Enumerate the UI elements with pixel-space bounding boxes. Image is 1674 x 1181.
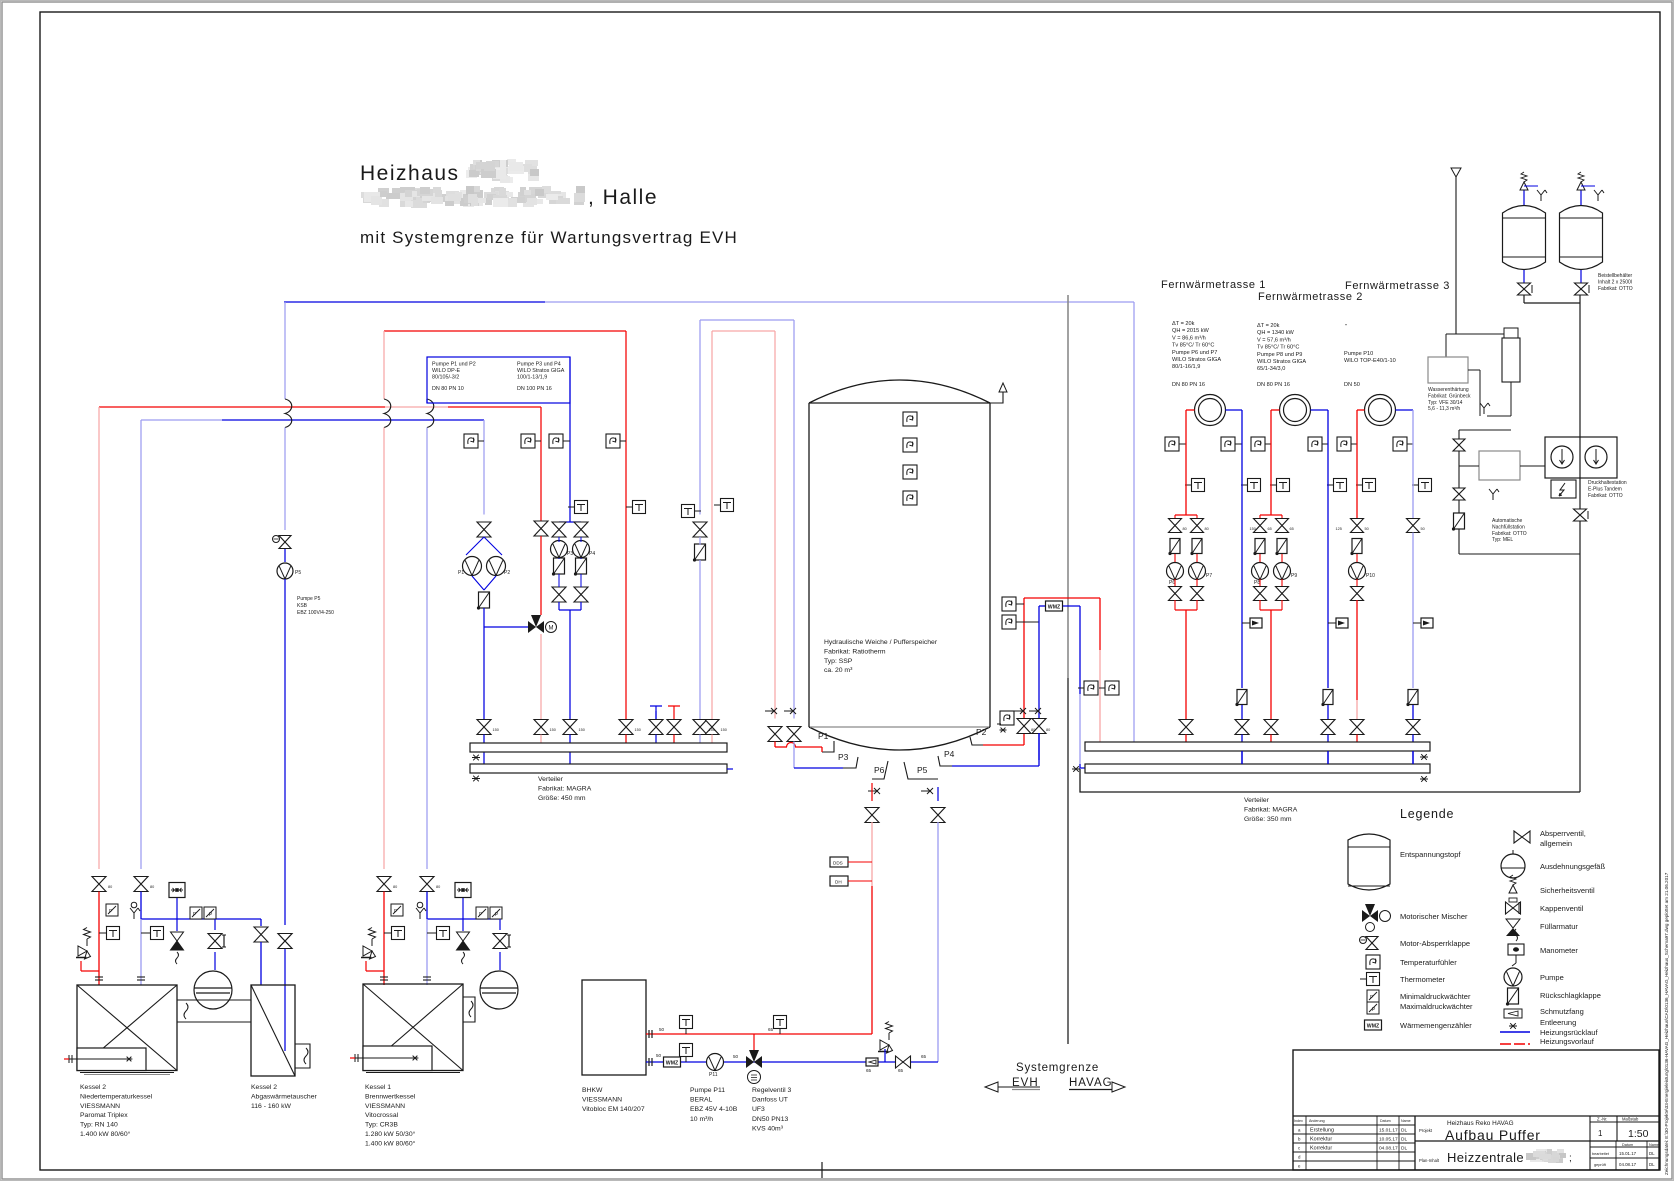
svg-text:mit Systemgrenze für Wartungsv: mit Systemgrenze für Wartungsvertrag EVH xyxy=(360,228,738,247)
svg-text:DN 50: DN 50 xyxy=(1344,382,1360,388)
svg-text:M: M xyxy=(549,625,554,631)
svg-text:Vitobloc EM 140/207: Vitobloc EM 140/207 xyxy=(582,1106,645,1113)
svg-text:Erstellung: Erstellung xyxy=(1310,1128,1334,1134)
svg-text:80/105/-3/2: 80/105/-3/2 xyxy=(432,375,459,381)
svg-text:Minimaldruckwächter: Minimaldruckwächter xyxy=(1400,992,1471,1001)
svg-text:ΔT = 20k: ΔT = 20k xyxy=(1257,323,1280,329)
svg-text:KSB: KSB xyxy=(297,603,308,609)
svg-text:Pumpe P11: Pumpe P11 xyxy=(690,1087,725,1094)
svg-text:P5: P5 xyxy=(295,570,301,576)
svg-text:Kessel 1: Kessel 1 xyxy=(365,1084,391,1091)
svg-text:15.01.17: 15.01.17 xyxy=(1619,1151,1637,1156)
svg-text:EBZ 100V/4-250: EBZ 100V/4-250 xyxy=(297,610,334,616)
svg-text:Thermometer: Thermometer xyxy=(1400,975,1446,984)
svg-text:P10: P10 xyxy=(1366,573,1375,579)
svg-text:80: 80 xyxy=(1031,728,1035,732)
svg-text:Pumpe P3 und P4: Pumpe P3 und P4 xyxy=(517,362,561,368)
svg-text:Korrektur: Korrektur xyxy=(1310,1146,1332,1152)
svg-text:Maximaldruckwächter: Maximaldruckwächter xyxy=(1400,1002,1473,1011)
svg-text:Tv 85°C/ Tr 60°C: Tv 85°C/ Tr 60°C xyxy=(1257,345,1299,351)
svg-text:Sicherheitsventil: Sicherheitsventil xyxy=(1540,886,1595,895)
svg-text:04.08.17: 04.08.17 xyxy=(1619,1162,1637,1167)
svg-text:Datum: Datum xyxy=(1622,1143,1633,1147)
svg-text:Manometer: Manometer xyxy=(1540,946,1578,955)
svg-text:ca. 20 m³: ca. 20 m³ xyxy=(824,667,853,674)
svg-text:80/1-16/1,9: 80/1-16/1,9 xyxy=(1172,364,1200,370)
svg-text:WMZ: WMZ xyxy=(1048,605,1061,611)
svg-text:UF3: UF3 xyxy=(752,1106,765,1113)
svg-text:WMZ: WMZ xyxy=(1367,1024,1380,1030)
svg-text:Kappenventil: Kappenventil xyxy=(1540,904,1584,913)
svg-text:DL: DL xyxy=(1401,1146,1407,1152)
svg-text:P11: P11 xyxy=(709,1072,718,1078)
svg-text:DN 80 PN 16: DN 80 PN 16 xyxy=(1257,382,1290,388)
svg-text:Typ: VFE 30/14: Typ: VFE 30/14 xyxy=(1428,400,1463,406)
svg-text:V = 86,6 m³/h: V = 86,6 m³/h xyxy=(1172,335,1206,341)
svg-text:116 - 160 kW: 116 - 160 kW xyxy=(251,1103,292,1110)
svg-text:Fabrikat: OTTO: Fabrikat: OTTO xyxy=(1598,286,1633,292)
svg-text:Name: Name xyxy=(1649,1143,1659,1147)
svg-text:15.01.17: 15.01.17 xyxy=(1379,1128,1398,1134)
svg-text:Rückschlagklappe: Rückschlagklappe xyxy=(1540,991,1601,1000)
svg-text:Plan-Inhalt: Plan-Inhalt xyxy=(1419,1158,1440,1163)
svg-text:Pumpe P5: Pumpe P5 xyxy=(297,596,321,602)
svg-text:P8: P8 xyxy=(1254,580,1260,586)
svg-text:Änderung: Änderung xyxy=(1309,1119,1325,1123)
svg-text:DN 100 PN 16: DN 100 PN 16 xyxy=(517,386,552,392)
svg-text:150: 150 xyxy=(709,728,715,732)
svg-text:50: 50 xyxy=(659,1027,665,1032)
svg-text:Ausdehnungsgefäß: Ausdehnungsgefäß xyxy=(1540,862,1605,871)
svg-text:65: 65 xyxy=(1268,527,1272,531)
svg-text:DL: DL xyxy=(1401,1128,1407,1134)
svg-text:1.400 kW 80/60°: 1.400 kW 80/60° xyxy=(365,1139,416,1147)
svg-text:Inhalt 2 x 2500l: Inhalt 2 x 2500l xyxy=(1598,279,1632,285)
svg-text:Absperrventil,: Absperrventil, xyxy=(1540,829,1586,838)
svg-text:100/1-13/1,9: 100/1-13/1,9 xyxy=(517,375,547,381)
svg-text:P5: P5 xyxy=(917,765,928,775)
svg-text:Pumpe: Pumpe xyxy=(1540,973,1564,982)
svg-text:allgemein: allgemein xyxy=(1540,839,1572,848)
svg-text:1:50: 1:50 xyxy=(1628,1128,1649,1140)
svg-text:80: 80 xyxy=(393,885,397,889)
svg-text:Fernwärmetrasse 3: Fernwärmetrasse 3 xyxy=(1345,280,1450,292)
svg-text:WILO Stratos GIGA: WILO Stratos GIGA xyxy=(517,368,565,374)
svg-text:10.05.17: 10.05.17 xyxy=(1379,1137,1398,1143)
svg-text:80: 80 xyxy=(1183,527,1187,531)
svg-text:Verteiler: Verteiler xyxy=(538,776,564,783)
svg-text:Regelventil 3: Regelventil 3 xyxy=(752,1087,792,1094)
svg-text:Z.-Nr.: Z.-Nr. xyxy=(1597,1117,1607,1122)
svg-text:Systemgrenze: Systemgrenze xyxy=(1016,1062,1099,1074)
svg-text:Schmutzfang: Schmutzfang xyxy=(1540,1007,1584,1016)
svg-text:WILO DP-E: WILO DP-E xyxy=(432,368,461,374)
svg-text:5,6 - 11,3 m³/h: 5,6 - 11,3 m³/h xyxy=(1428,406,1460,412)
svg-text:Typ: CR3B: Typ: CR3B xyxy=(365,1122,398,1129)
svg-text:P4: P4 xyxy=(589,551,595,557)
svg-text:65: 65 xyxy=(898,1068,904,1073)
svg-text:Kessel 2: Kessel 2 xyxy=(80,1084,106,1091)
svg-text:Entspannungstopf: Entspannungstopf xyxy=(1400,850,1461,859)
svg-text:HAVAG: HAVAG xyxy=(1069,1077,1113,1089)
svg-text:Temperaturfühler: Temperaturfühler xyxy=(1400,958,1457,967)
svg-text:WILO Stratos GIGA: WILO Stratos GIGA xyxy=(1257,359,1306,365)
svg-text:Heizzentrale: Heizzentrale xyxy=(1447,1150,1524,1165)
svg-text:Pumpe P6 und P7: Pumpe P6 und P7 xyxy=(1172,350,1217,356)
svg-text:Typ: SSP: Typ: SSP xyxy=(824,658,853,665)
svg-text:P3: P3 xyxy=(838,752,849,762)
svg-text:Legende: Legende xyxy=(1400,807,1454,821)
svg-text:Nachfüllstation: Nachfüllstation xyxy=(1492,524,1525,530)
svg-text:DN50 PN13: DN50 PN13 xyxy=(752,1116,788,1123)
svg-text:50: 50 xyxy=(656,1053,662,1058)
svg-text:;: ; xyxy=(1569,1153,1572,1164)
svg-text:Hydraulische Weiche / Puffersp: Hydraulische Weiche / Pufferspeicher xyxy=(824,639,938,646)
svg-text:Vitocrossal: Vitocrossal xyxy=(365,1112,399,1119)
svg-text:VIESSMANN: VIESSMANN xyxy=(80,1103,120,1110)
svg-text:P4: P4 xyxy=(944,749,955,759)
svg-text:Name: Name xyxy=(1401,1119,1411,1123)
svg-text:Pumpe P10: Pumpe P10 xyxy=(1344,351,1373,357)
svg-text:Heizungsrücklauf: Heizungsrücklauf xyxy=(1540,1028,1598,1037)
svg-text:80: 80 xyxy=(108,885,112,889)
svg-text:DN 80 PN 16: DN 80 PN 16 xyxy=(1172,382,1205,388)
svg-text:DL: DL xyxy=(1649,1151,1655,1156)
svg-text:Größe: 450 mm: Größe: 450 mm xyxy=(538,795,586,802)
svg-text:P1: P1 xyxy=(818,731,829,741)
svg-text:65/1-34/3,0: 65/1-34/3,0 xyxy=(1257,366,1285,372)
svg-text:150: 150 xyxy=(493,728,499,732)
svg-text:150: 150 xyxy=(1250,527,1256,531)
svg-text:Heizungsvorlauf: Heizungsvorlauf xyxy=(1540,1037,1595,1046)
svg-text:1.280 kW 50/30°: 1.280 kW 50/30° xyxy=(365,1130,416,1138)
svg-text:P6: P6 xyxy=(1169,580,1175,586)
svg-text:Größe: 350 mm: Größe: 350 mm xyxy=(1244,816,1292,823)
svg-text:P2: P2 xyxy=(504,570,510,576)
svg-text:DN 80 PN 10: DN 80 PN 10 xyxy=(432,386,464,392)
svg-text:E-Plus Tandem: E-Plus Tandem xyxy=(1588,486,1622,492)
svg-text:P2: P2 xyxy=(976,727,987,737)
svg-text:": " xyxy=(1345,324,1347,330)
svg-text:Fabrikat: Ratiotherm: Fabrikat: Ratiotherm xyxy=(824,648,886,655)
svg-text:65: 65 xyxy=(1290,527,1294,531)
svg-text:Korrektur: Korrektur xyxy=(1310,1137,1332,1143)
svg-text:QH = 2015 kW: QH = 2015 kW xyxy=(1172,328,1210,334)
svg-text:50: 50 xyxy=(1365,527,1369,531)
svg-text:ΔT = 20k: ΔT = 20k xyxy=(1172,321,1195,327)
svg-text:150: 150 xyxy=(635,728,641,732)
svg-text:VIESSMANN: VIESSMANN xyxy=(582,1097,622,1104)
svg-text:P7: P7 xyxy=(1206,573,1212,579)
svg-text:Zeichnungsdatei: E:\30-Projekt: Zeichnungsdatei: E:\30-Projekte\33-Energ… xyxy=(1664,872,1669,1175)
svg-text:65: 65 xyxy=(866,1068,872,1073)
svg-text:VIESSMANN: VIESSMANN xyxy=(365,1103,405,1110)
svg-text:Fabrikat: MAGRA: Fabrikat: MAGRA xyxy=(538,786,592,793)
svg-text:Danfoss UT: Danfoss UT xyxy=(752,1097,788,1104)
svg-text:bearbeitet: bearbeitet xyxy=(1592,1152,1610,1156)
svg-text:DL: DL xyxy=(1401,1137,1407,1143)
svg-text:Druckhaltestation: Druckhaltestation xyxy=(1588,480,1627,486)
svg-text:Wasserenthärtung: Wasserenthärtung xyxy=(1428,387,1469,393)
svg-text:1.400 kW 80/60°: 1.400 kW 80/60° xyxy=(80,1130,131,1138)
svg-text:Heizhaus: Heizhaus xyxy=(360,162,460,185)
svg-text:80: 80 xyxy=(150,885,154,889)
svg-text:Pumpe P8 und P9: Pumpe P8 und P9 xyxy=(1257,352,1302,358)
svg-text:1: 1 xyxy=(1598,1129,1603,1138)
svg-text:KVS 40m³: KVS 40m³ xyxy=(752,1125,784,1132)
svg-text:Index: Index xyxy=(1294,1119,1303,1123)
svg-text:150: 150 xyxy=(550,728,556,732)
svg-text:Wärmemengenzähler: Wärmemengenzähler xyxy=(1400,1021,1472,1030)
svg-text:80: 80 xyxy=(1046,728,1050,732)
svg-text:Typ: RN 140: Typ: RN 140 xyxy=(80,1122,118,1129)
svg-text:P9: P9 xyxy=(1291,573,1297,579)
svg-text:Datum: Datum xyxy=(1380,1119,1391,1123)
svg-text:Füllarmatur: Füllarmatur xyxy=(1540,922,1578,931)
svg-text:P6: P6 xyxy=(874,765,885,775)
svg-text:Entleerung: Entleerung xyxy=(1540,1018,1576,1027)
svg-text:10 m³/h: 10 m³/h xyxy=(690,1116,713,1123)
svg-text:Kessel 2: Kessel 2 xyxy=(251,1084,277,1091)
svg-text:125: 125 xyxy=(1336,527,1342,531)
svg-text:50: 50 xyxy=(733,1054,739,1059)
svg-text:geprüft: geprüft xyxy=(1594,1163,1607,1167)
svg-text:Motor-Absperrklappe: Motor-Absperrklappe xyxy=(1400,939,1470,948)
svg-text:WILO TOP-E40/1-10: WILO TOP-E40/1-10 xyxy=(1344,358,1396,364)
svg-text:Fabrikat: OTTO: Fabrikat: OTTO xyxy=(1492,531,1527,537)
svg-text:DH: DH xyxy=(835,880,842,885)
svg-text:BERAL: BERAL xyxy=(690,1097,713,1104)
svg-text:Tv 85°C/ Tr 60°C: Tv 85°C/ Tr 60°C xyxy=(1172,343,1214,349)
svg-text:V = 57,6 m³/h: V = 57,6 m³/h xyxy=(1257,337,1291,343)
svg-text:Fernwärmetrasse 1: Fernwärmetrasse 1 xyxy=(1161,279,1266,291)
svg-text:150: 150 xyxy=(579,728,585,732)
svg-text:DDS: DDS xyxy=(833,861,843,866)
svg-text:Aufbau Puffer: Aufbau Puffer xyxy=(1445,1127,1541,1143)
svg-text:Fernwärmetrasse 2: Fernwärmetrasse 2 xyxy=(1258,291,1363,303)
svg-text:Beistellbehälter: Beistellbehälter xyxy=(1598,273,1633,279)
svg-text:Paromat Triplex: Paromat Triplex xyxy=(80,1112,128,1119)
svg-text:DL: DL xyxy=(1649,1162,1655,1167)
svg-text:Typ: MEL: Typ: MEL xyxy=(1492,537,1513,543)
svg-text:150: 150 xyxy=(721,728,727,732)
svg-text:Motorischer Mischer: Motorischer Mischer xyxy=(1400,912,1468,921)
svg-text:50: 50 xyxy=(1421,527,1425,531)
svg-text:WILO Stratos GIGA: WILO Stratos GIGA xyxy=(1172,357,1221,363)
svg-text:Brennwertkessel: Brennwertkessel xyxy=(365,1093,416,1100)
svg-text:WMZ: WMZ xyxy=(666,1061,679,1067)
svg-text:80: 80 xyxy=(436,885,440,889)
svg-text:Fabrikat: OTTO: Fabrikat: OTTO xyxy=(1588,493,1623,499)
svg-text:Niedertemperaturkessel: Niedertemperaturkessel xyxy=(80,1093,153,1100)
svg-text:BHKW: BHKW xyxy=(582,1087,603,1094)
svg-text:QH = 1340 kW: QH = 1340 kW xyxy=(1257,330,1295,336)
svg-text:65: 65 xyxy=(768,1027,774,1032)
svg-text:Abgaswärmetauscher: Abgaswärmetauscher xyxy=(251,1093,317,1100)
svg-text:Fabrikat: Grünbeck: Fabrikat: Grünbeck xyxy=(1428,393,1471,399)
svg-text:Verteiler: Verteiler xyxy=(1244,797,1270,804)
svg-text:EBZ 45V 4-10B: EBZ 45V 4-10B xyxy=(690,1106,738,1113)
svg-text:P1: P1 xyxy=(458,570,464,576)
svg-text:Maßstab: Maßstab xyxy=(1622,1117,1639,1122)
svg-text:Automatische: Automatische xyxy=(1492,518,1523,524)
svg-text:65: 65 xyxy=(921,1054,927,1059)
svg-text:Pumpe P1 und P2: Pumpe P1 und P2 xyxy=(432,362,476,368)
svg-text:, Halle: , Halle xyxy=(588,186,658,209)
svg-text:Fabrikat: MAGRA: Fabrikat: MAGRA xyxy=(1244,807,1298,814)
svg-text:Heizhaus Reko HAVAG: Heizhaus Reko HAVAG xyxy=(1447,1120,1514,1127)
svg-text:80: 80 xyxy=(1205,527,1209,531)
svg-text:04.08.17: 04.08.17 xyxy=(1379,1146,1398,1152)
svg-text:Projekt: Projekt xyxy=(1419,1128,1433,1133)
